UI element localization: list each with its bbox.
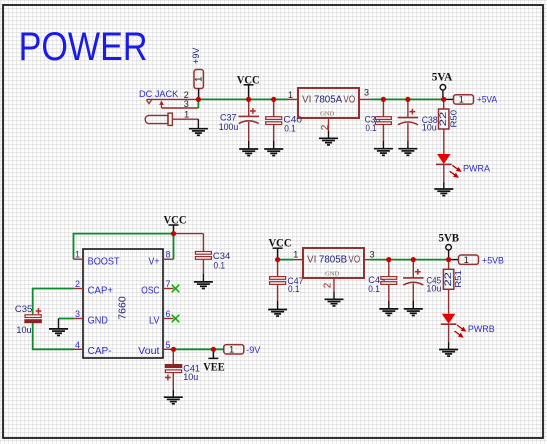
svg-text:1: 1	[288, 90, 293, 100]
emission arrows	[450, 165, 461, 177]
svg-text:7: 7	[165, 279, 170, 289]
ground jack	[189, 129, 208, 136]
wire 7660 boost loop	[74, 234, 174, 260]
svg-text:PWRA: PWRA	[463, 164, 490, 174]
svg-text:POWER: POWER	[19, 25, 148, 69]
ground 7805A pin2	[319, 138, 338, 145]
svg-text:7805A: 7805A	[314, 94, 343, 105]
junction at C43	[386, 257, 391, 262]
ground C34	[194, 282, 213, 289]
wire rail B left	[278, 259, 294, 261]
emission arrows	[454, 325, 465, 337]
svg-text:2: 2	[322, 282, 333, 288]
connector +5VA	[444, 95, 497, 105]
capacitor C37	[219, 99, 259, 149]
wire Vout to -9V	[174, 348, 224, 350]
svg-text:CAP-: CAP-	[88, 345, 112, 357]
power port VCC C	[269, 235, 292, 259]
connector +5VB	[449, 255, 504, 265]
wire jack pin3 vertical	[197, 99, 199, 108]
ground C38	[398, 149, 417, 156]
ground LED B	[439, 350, 458, 357]
svg-text:VI: VI	[302, 94, 311, 105]
svg-text:OSC: OSC	[141, 285, 160, 297]
capacitor C38	[398, 99, 438, 148]
resistor R50	[438, 99, 458, 129]
svg-text:1: 1	[459, 95, 464, 105]
svg-text:VEE: VEE	[203, 360, 224, 374]
junction at 5VB node	[446, 257, 451, 262]
svg-text:+5VA: +5VA	[477, 95, 497, 105]
svg-text:5VB: 5VB	[439, 231, 460, 245]
regulator U? VI7805AVO	[288, 88, 371, 139]
no-connect X pin7	[172, 285, 180, 293]
connector -9V	[224, 345, 261, 355]
junction at C40	[271, 97, 276, 102]
svg-text:R50: R50	[448, 110, 458, 128]
pin 3	[359, 98, 371, 100]
svg-text:6: 6	[165, 309, 170, 319]
svg-text:V+: V+	[149, 256, 160, 268]
svg-text:GND: GND	[320, 112, 334, 118]
connector P+9V	[191, 48, 205, 100]
junction at VCC / C37	[246, 97, 251, 102]
svg-text:VO: VO	[348, 254, 360, 265]
junction at VCC / C47	[275, 257, 280, 262]
wire VCC rail A left	[198, 98, 288, 100]
pin stubs right	[163, 258, 174, 260]
svg-text:3: 3	[75, 309, 80, 319]
capacitor C45	[403, 260, 441, 309]
resistor R51	[443, 260, 463, 290]
pin 2	[328, 118, 330, 131]
wire C35 bottom to CAP-	[33, 324, 74, 350]
svg-text:5VA: 5VA	[432, 69, 453, 83]
pin 3 line with switch arrow	[162, 107, 199, 109]
wire C35 top to CAP+	[33, 289, 74, 314]
svg-text:0.1: 0.1	[214, 261, 226, 271]
svg-text:7805B: 7805B	[319, 254, 348, 265]
svg-text:C35: C35	[15, 304, 32, 314]
power port VCC A	[237, 73, 260, 100]
svg-text:10u: 10u	[422, 122, 437, 132]
svg-text:10u: 10u	[16, 325, 31, 335]
svg-text:-9V: -9V	[246, 345, 260, 355]
svg-text:3: 3	[370, 250, 375, 260]
DC JACK J1	[139, 89, 198, 129]
ground C41	[164, 397, 183, 404]
power port VCC B	[164, 212, 187, 233]
svg-text:DC JACK: DC JACK	[139, 89, 178, 99]
junction at DC jack output	[196, 97, 201, 102]
svg-text:3: 3	[364, 88, 369, 98]
barrel	[145, 115, 168, 123]
ground 7805B pin2	[325, 299, 344, 306]
junction at 7660 VCC node	[171, 231, 176, 236]
svg-text:22: 22	[438, 112, 448, 127]
ground C40	[264, 149, 283, 156]
capacitor C43	[368, 260, 397, 309]
capacitor C35	[15, 304, 42, 335]
svg-text:8: 8	[165, 250, 170, 260]
svg-text:10u: 10u	[426, 284, 441, 294]
svg-text:5: 5	[165, 340, 170, 350]
svg-text:+9V: +9V	[191, 48, 201, 64]
capacitor C47	[270, 260, 304, 310]
svg-text:10u: 10u	[183, 372, 198, 382]
IC U? 7660	[74, 249, 174, 358]
svg-text:0.1: 0.1	[288, 284, 300, 294]
svg-text:1: 1	[229, 345, 234, 355]
wire GND pin3 7660	[59, 318, 74, 320]
power port 5VA	[432, 69, 453, 99]
wire rail B right	[370, 259, 449, 261]
svg-text:VCC: VCC	[269, 235, 292, 249]
svg-text:1: 1	[464, 255, 469, 265]
junction at C45	[411, 257, 416, 262]
svg-text:7660: 7660	[116, 296, 128, 320]
no-connect X pin6	[172, 315, 180, 323]
svg-text:1: 1	[75, 250, 80, 260]
capacitor C41	[165, 349, 200, 397]
ground C45	[404, 309, 423, 316]
svg-text:R51: R51	[453, 270, 463, 288]
svg-text:VI: VI	[307, 254, 316, 265]
wire VCC rail A right	[371, 98, 444, 100]
svg-text:C34: C34	[213, 251, 230, 261]
capacitor C34	[174, 234, 231, 282]
ground C43	[379, 309, 398, 316]
power port 5VB	[439, 231, 460, 260]
junction at C38	[405, 97, 410, 102]
power port VEE	[203, 349, 224, 373]
svg-text:100u: 100u	[219, 122, 239, 132]
svg-text:PWRB: PWRB	[468, 324, 495, 334]
pin 1	[294, 259, 304, 261]
ground 7660 pin3	[49, 319, 68, 336]
pin 1 line	[172, 118, 198, 120]
pin 2 line	[147, 98, 199, 100]
svg-text:0.1: 0.1	[368, 284, 380, 294]
pin 1	[288, 98, 298, 100]
regulator U? VI7805BVO	[293, 248, 374, 299]
svg-text:0.1: 0.1	[284, 124, 296, 134]
svg-text:Vout: Vout	[138, 345, 159, 357]
svg-text:4: 4	[75, 340, 80, 350]
ground LED A	[434, 189, 453, 196]
svg-text:+5VB: +5VB	[482, 255, 504, 265]
capacitor C40	[266, 99, 302, 149]
junction at VEE node	[211, 347, 216, 352]
LED DS? PWRB	[441, 289, 495, 349]
pin 2	[333, 278, 335, 292]
svg-text:LV: LV	[149, 315, 160, 327]
svg-text:1: 1	[193, 77, 204, 82]
svg-text:GND: GND	[325, 272, 339, 278]
ground C37	[239, 149, 258, 156]
junction at 5VA node	[441, 97, 446, 102]
ground C36	[374, 149, 393, 156]
svg-text:CAP+: CAP+	[88, 285, 113, 297]
svg-text:BOOST: BOOST	[88, 256, 121, 268]
svg-text:2: 2	[75, 279, 80, 289]
junction at C36	[381, 97, 386, 102]
LED DS? PWRA	[436, 129, 490, 189]
junction at Vout / C41	[171, 347, 176, 352]
pin 3	[364, 259, 370, 261]
capacitor C36	[365, 99, 392, 148]
svg-text:GND: GND	[88, 315, 109, 327]
svg-text:VO: VO	[343, 94, 355, 105]
pin stubs left	[74, 258, 84, 260]
svg-text:1: 1	[293, 250, 298, 260]
svg-text:22: 22	[443, 272, 453, 287]
svg-text:C37: C37	[220, 113, 237, 123]
svg-text:3: 3	[184, 99, 189, 109]
svg-text:2: 2	[320, 124, 331, 130]
svg-text:1: 1	[184, 110, 189, 120]
ground C47	[268, 310, 287, 317]
